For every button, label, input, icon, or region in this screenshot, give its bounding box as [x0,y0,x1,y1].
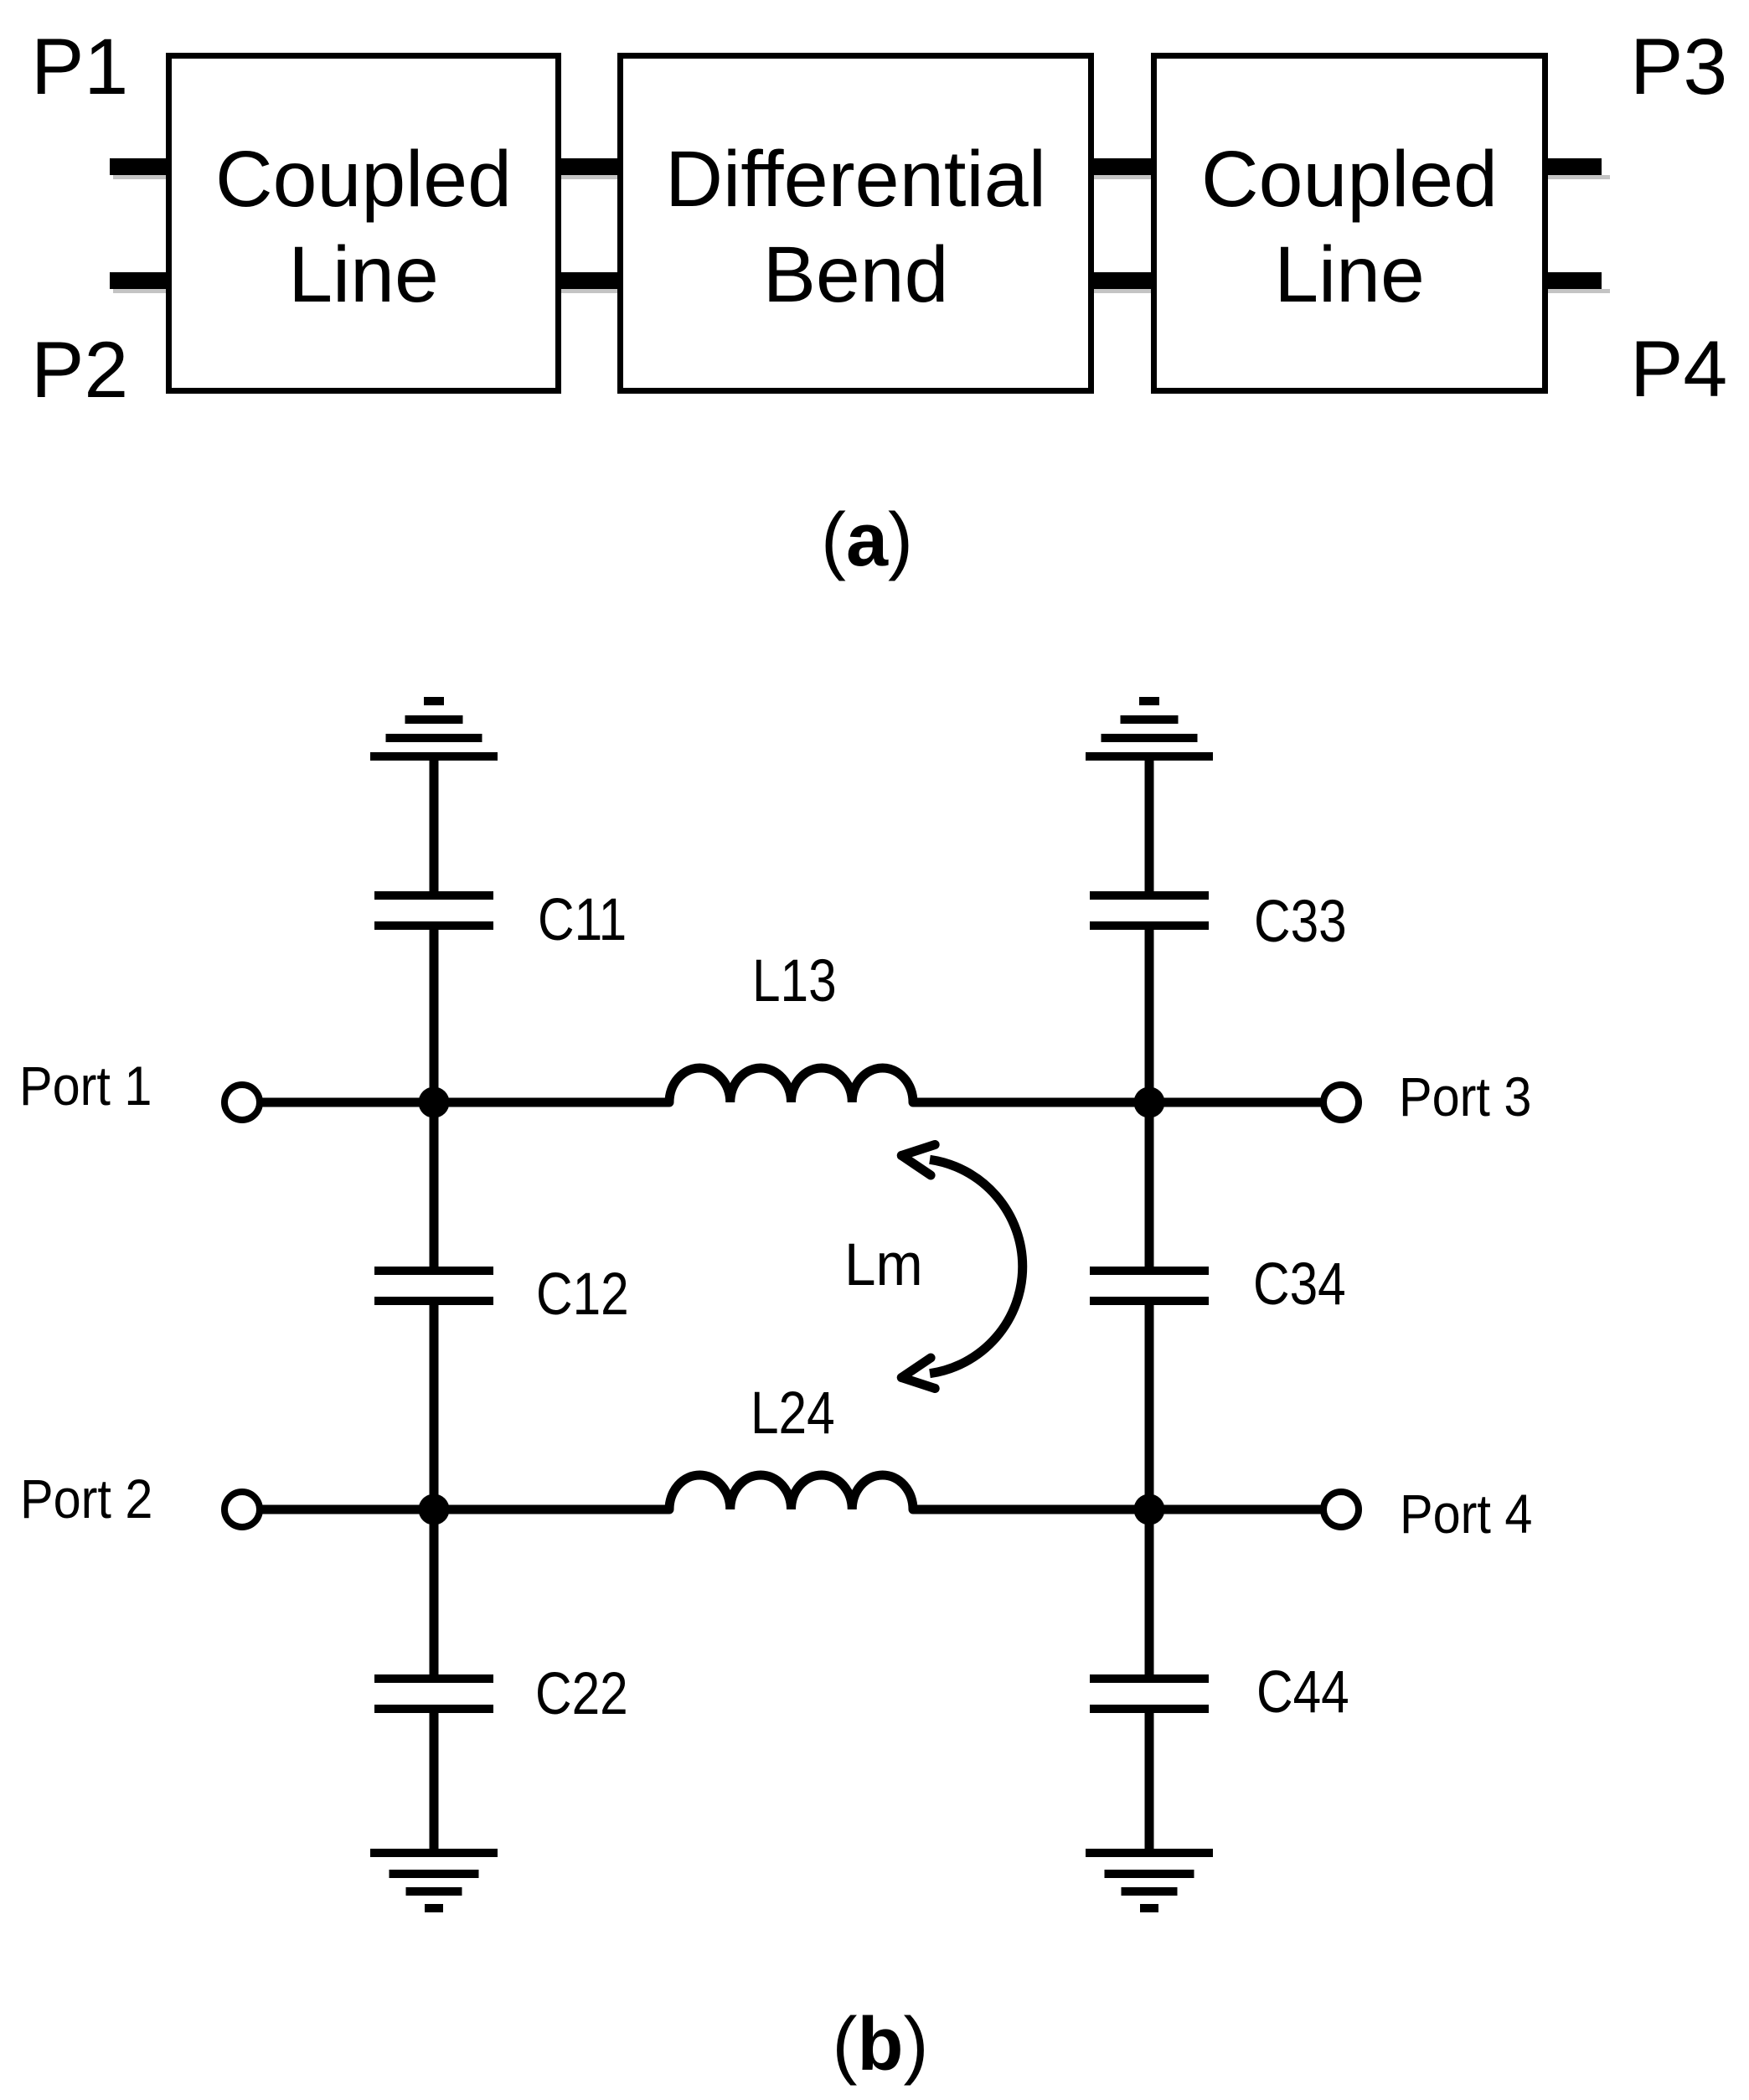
wire C12 to node 2 [430,1301,439,1509]
inductor L24 [669,1475,913,1509]
svg-text:Port 4: Port 4 [1400,1483,1532,1545]
inductor L13 [669,1068,913,1102]
svg-text:Lm: Lm [844,1231,923,1298]
svg-text:Line: Line [288,230,439,319]
wire node 1 to C12 [430,1102,439,1271]
ground symbol top-right [1086,701,1213,756]
svg-text:Port 1: Port 1 [19,1055,152,1117]
wire node 4 to Port 4 [1149,1505,1323,1514]
svg-text:Port 2: Port 2 [20,1468,152,1530]
wire ground to C33 [1145,756,1154,895]
svg-text:L13: L13 [752,947,837,1014]
svg-text:P2: P2 [31,326,128,415]
wire C44 to ground [1145,1709,1154,1853]
wire C22 to ground [430,1709,439,1853]
node 2 junction [419,1494,450,1525]
capacitor C12 [374,1271,493,1301]
wire stub box2-box3 lower [1090,272,1163,293]
wire node 3 to C34 [1145,1102,1154,1271]
wire stub at P4 [1544,272,1610,293]
ground symbol bottom-left [370,1853,498,1908]
wire node 4 to C44 [1145,1509,1154,1679]
svg-text:Coupled: Coupled [215,135,512,224]
svg-text:C44: C44 [1256,1658,1349,1725]
wire Port 2 to node 2 [260,1505,434,1514]
port terminal Port 4 [1323,1492,1359,1527]
svg-text:C11: C11 [538,885,627,952]
svg-text:C34: C34 [1253,1250,1346,1317]
svg-text:Differential: Differential [665,135,1046,224]
wire stub at P3 [1544,158,1610,179]
port terminal Port 3 [1323,1085,1359,1120]
wire stub box1-box2 lower [557,272,630,293]
wire C34 to node 4 [1145,1301,1154,1509]
svg-text:Line: Line [1274,230,1425,319]
wire node 3 to Port 3 [1149,1098,1323,1107]
svg-text:P1: P1 [31,23,128,111]
wire stub at P1 [110,158,180,179]
svg-text:C22: C22 [535,1659,628,1726]
block Coupled Line (right) [1154,56,1545,391]
wire stub at P2 [110,272,180,293]
svg-text:(b): (b) [833,2003,929,2087]
mutual coupling arrow Lm [901,1145,1022,1389]
capacitor C33 [1090,895,1209,926]
svg-text:(a): (a) [821,498,913,582]
wire stub box2-box3 upper [1090,158,1163,179]
wire C11 to node 1 [430,926,439,1102]
port terminal Port 2 [224,1492,260,1527]
wire C33 to node 3 [1145,926,1154,1102]
svg-text:C33: C33 [1254,887,1347,954]
wire node 2 to L24 [434,1505,669,1514]
svg-text:Port 3: Port 3 [1399,1066,1531,1128]
block Coupled Line (left) [169,56,559,391]
svg-text:Coupled: Coupled [1201,135,1498,224]
capacitor C22 [374,1679,493,1709]
svg-text:C12: C12 [536,1260,629,1327]
block Differential Bend [621,56,1091,391]
node 3 junction [1134,1087,1165,1118]
wire stub box1-box2 upper [557,158,630,179]
wire L24 to node 4 [913,1505,1149,1514]
wire L13 to node 3 [913,1098,1149,1107]
capacitor C11 [374,895,493,926]
svg-text:P3: P3 [1630,23,1727,111]
port terminal Port 1 [224,1085,260,1120]
ground symbol top-left [370,701,498,756]
node 1 junction [419,1087,450,1118]
wire node 2 to C22 [430,1509,439,1679]
ground symbol bottom-right [1086,1853,1213,1908]
svg-text:L24: L24 [751,1379,835,1446]
node 4 junction [1134,1494,1165,1525]
wire ground to C11 [430,756,439,895]
svg-text:P4: P4 [1630,325,1727,414]
capacitor C34 [1090,1271,1209,1301]
capacitor C44 [1090,1679,1209,1709]
wire node 1 to L13 [434,1098,669,1107]
wire Port 1 to node 1 [260,1098,434,1107]
svg-text:Bend: Bend [763,230,949,319]
